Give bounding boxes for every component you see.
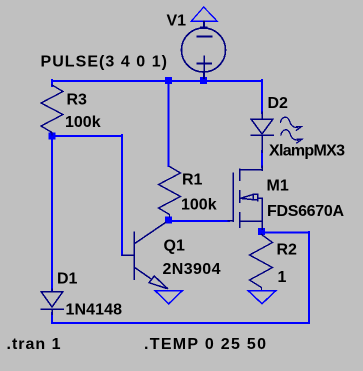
svg-text:D1: D1 bbox=[57, 270, 78, 287]
node junction top V1 bbox=[200, 77, 207, 84]
wire R1 top vertical bbox=[168, 80, 170, 166]
svg-text:R1: R1 bbox=[182, 171, 203, 188]
resistor R2 bbox=[250, 235, 273, 291]
voltage source V1 bbox=[182, 22, 226, 79]
ground at Q1 emitter bbox=[155, 291, 183, 304]
svg-text:2N3904: 2N3904 bbox=[163, 261, 221, 278]
diode D1 bbox=[41, 289, 63, 314]
wire D1 bottom stub bbox=[51, 313, 53, 323]
MOSFET M1 bbox=[228, 166, 262, 229]
node junction R1 bottom / gate bbox=[165, 217, 172, 224]
wire R2 junction to right rail bbox=[261, 232, 309, 234]
svg-text:M1: M1 bbox=[267, 178, 289, 195]
wire R3 top stub bbox=[51, 80, 53, 86]
svg-text:R3: R3 bbox=[67, 91, 88, 108]
LED D2 bbox=[251, 112, 273, 152]
node junction top R1 bbox=[165, 77, 172, 84]
resistor R1 bbox=[159, 167, 181, 218]
svg-text:XlampMX3: XlampMX3 bbox=[269, 143, 345, 160]
svg-text:100k: 100k bbox=[181, 197, 217, 214]
svg-text:1: 1 bbox=[278, 269, 287, 286]
node junction R3 bottom bbox=[49, 133, 56, 140]
svg-text:1N4148: 1N4148 bbox=[66, 302, 123, 319]
ground at R2 bottom bbox=[248, 291, 276, 304]
svg-text:FDS6670A: FDS6670A bbox=[267, 203, 344, 220]
wire left rail to D1 bbox=[51, 136, 53, 290]
svg-text:100k: 100k bbox=[65, 114, 101, 131]
flag / port triangle above V1 bbox=[191, 7, 217, 21]
wire top horizontal bbox=[52, 80, 262, 82]
wire R3 bottom to Q1 base column bbox=[52, 135, 122, 137]
svg-text:PULSE(3 4 0 1): PULSE(3 4 0 1) bbox=[41, 53, 168, 70]
LED D2 light ray arrows bbox=[281, 117, 303, 143]
wire D2 to M1 drain bbox=[261, 151, 263, 167]
svg-text:D2: D2 bbox=[268, 95, 289, 112]
node junction M1 source / R2 bbox=[258, 228, 265, 235]
transistor Q1 bbox=[122, 223, 168, 289]
wire Q1 base column vertical bbox=[121, 135, 123, 255]
svg-text:Q1: Q1 bbox=[164, 238, 185, 255]
svg-text:R2: R2 bbox=[277, 241, 298, 258]
resistor R3 bbox=[41, 85, 63, 135]
wire bottom horizontal bbox=[52, 322, 309, 324]
svg-text:V1: V1 bbox=[167, 13, 187, 30]
wire right rail bbox=[308, 232, 310, 323]
svg-text:.TEMP 0 25 50: .TEMP 0 25 50 bbox=[144, 336, 266, 353]
wire gate bbox=[170, 220, 229, 222]
wire V1 to D2 top bbox=[261, 80, 263, 113]
svg-text:.tran 1: .tran 1 bbox=[7, 336, 61, 353]
